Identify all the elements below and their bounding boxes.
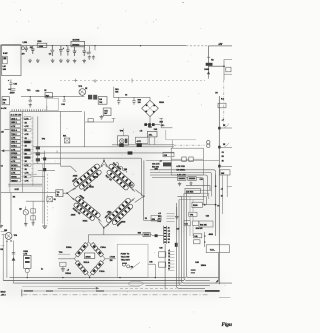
svg-text:C3: C3 [49, 54, 51, 56]
svg-text:R14A: R14A [89, 185, 94, 188]
connector J2 pin box row 2 [11, 120, 21, 123]
svg-text:C3: C3 [168, 256, 170, 258]
svg-text:4 4.7K: 4 4.7K [1, 107, 7, 110]
connector row below T1 [144, 124, 160, 126]
wire y127.8 stub [161, 127, 172, 129]
bridge B1 diamond outline [74, 242, 105, 277]
wire y291 dark patches left [24, 290, 33, 291]
connector J2 pin box row 16 [11, 175, 21, 178]
node blob y128 [218, 127, 220, 130]
component K1 inside enclosure [3, 56, 8, 64]
wire Q4 leads down [2, 235, 4, 281]
svg-text:TP8: TP8 [14, 235, 17, 237]
terminal TS1 pin 5 [164, 239, 166, 240]
component X1 crossed box [64, 138, 69, 143]
wire dashed y80 long [60, 80, 205, 82]
marks small x192 [191, 269, 196, 270]
wire bus y286.6 faint long [22, 286, 140, 288]
wire extra verticals right of bus [190, 197, 193, 237]
node blob junction y153 [128, 151, 133, 154]
wire bus y288.3 mid dashes [120, 287, 177, 289]
wire Q5 to bus [26, 273, 28, 278]
box R29 on x143 wire [151, 216, 161, 222]
connector J2 pin box row 5 [11, 132, 21, 135]
wire diamond bottom vertex [99, 221, 109, 234]
wire x215.6 vertical [215, 175, 217, 237]
connector J2 pin box row 10 [11, 152, 21, 155]
resistor network RN1 row 7 [24, 140, 31, 143]
connector J2 pin box row 4 [11, 128, 21, 131]
arrow input left [3, 150, 10, 152]
box T.O. driver left of diamond [56, 190, 63, 197]
svg-text:R71: R71 [63, 136, 66, 138]
wire x165.8 short vertical [165, 130, 167, 140]
wire stub left border to Q4 [1, 231, 7, 233]
ground C6 [74, 59, 76, 61]
wire diamond right vertex [135, 190, 144, 203]
svg-text:RTS11: RTS11 [11, 157, 17, 159]
wire x37.8 vertical [37, 116, 39, 163]
wire diamond top vertex [101, 158, 107, 165]
svg-text:2N2222: 2N2222 [72, 45, 80, 47]
wire y185.2 [186, 185, 210, 190]
box C19 dark [163, 162, 172, 166]
wire x227.2 vertical [226, 175, 228, 198]
ground C4 [60, 59, 62, 61]
svg-text:R9: R9 [168, 239, 170, 241]
ground C7 [83, 59, 85, 61]
svg-text:R5: R5 [13, 196, 15, 198]
transistor Q3 circle [23, 210, 28, 215]
ground C3 [52, 59, 54, 61]
resistor R41 box on rail [45, 93, 52, 98]
svg-text:4.7K: 4.7K [11, 125, 16, 128]
diode CR3 [90, 243, 98, 251]
svg-text:TP9: TP9 [120, 131, 123, 133]
svg-text:C20: C20 [200, 179, 203, 181]
wire y176.6 stub [33, 176, 45, 178]
arrow into bus [215, 280, 218, 283]
bridge T1 diamond [142, 100, 159, 116]
wire stub y128 [219, 127, 232, 129]
diode blobs in T1 [146, 104, 148, 106]
node blob y147 [218, 146, 220, 149]
hook curve y128 [224, 124, 229, 129]
svg-text:C31A: C31A [99, 270, 105, 273]
svg-text:R15A: R15A [159, 101, 164, 104]
svg-text:4.7K C2B: 4.7K C2B [176, 165, 185, 168]
svg-text:4.7K: 4.7K [25, 133, 30, 136]
capacitor C31 cluster [9, 79, 13, 88]
wire x44.7 vertical [44, 151, 46, 225]
svg-text:+2: +2 [222, 119, 224, 121]
wire right vertex link [105, 258, 116, 260]
wire stub y166.3 [219, 165, 232, 167]
wire T1 top stem [149, 97, 151, 100]
connector J2 pin box row 3 [11, 124, 21, 127]
lamp DS1 box with circle [117, 136, 128, 145]
svg-text:Q3: Q3 [19, 208, 21, 210]
wire y163.8 to right [33, 163, 61, 165]
svg-text:F2: F2 [217, 206, 219, 208]
wire bus y283.1 [14, 282, 182, 284]
wire TP9 stem [123, 128, 125, 135]
wire x143.5 down from right vertex [143, 196, 145, 220]
svg-text:100 1N914: 100 1N914 [176, 169, 185, 172]
svg-text:GND17: GND17 [11, 180, 17, 182]
ground C1b [37, 59, 39, 61]
wire bus y291 dark right end [205, 290, 220, 292]
wire block bottom edges [8, 184, 42, 186]
resistor R37 box [159, 252, 166, 257]
box TEL right [206, 245, 229, 253]
svg-text:R35: R35 [138, 233, 141, 235]
wire diamond left vertex [63, 188, 74, 199]
box shield around R42 [47, 98, 58, 110]
terminal text rows upper [167, 213, 175, 215]
diode CR4 [96, 249, 104, 257]
wire y97.3 rail right [114, 96, 150, 98]
capacitor C32 marks [10, 89, 15, 91]
svg-text:4N35: 4N35 [71, 213, 76, 216]
svg-text:4.7K: 4.7K [137, 140, 142, 143]
node dot y204 [204, 204, 206, 206]
wire x60.5 vertical [60, 111, 62, 166]
svg-text:Figur: Figur [222, 322, 233, 328]
resistor R23 box [185, 188, 200, 193]
svg-text:S1: S1 [54, 199, 56, 201]
svg-text:P7: P7 [168, 269, 170, 271]
svg-text:R23B: R23B [193, 205, 198, 207]
svg-text:R15A: R15A [83, 220, 88, 223]
terminal label row 1 [168, 251, 174, 253]
wire y144.8 rail [112, 144, 174, 146]
dark rows right column [24, 141, 30, 143]
svg-text:4.7K: 4.7K [11, 148, 16, 151]
wire left vertex link [58, 258, 74, 260]
svg-text:4N33: 4N33 [209, 233, 213, 236]
wire stub node C [94, 46, 96, 51]
ground R22 [190, 182, 192, 184]
wire stub node B [88, 46, 90, 53]
wire T1 bottom stem [149, 117, 151, 125]
svg-text:TP3: TP3 [42, 138, 45, 140]
wire main top rail [1, 45, 186, 47]
wire bus y291 [22, 290, 220, 292]
capacitor C61 [117, 97, 121, 104]
connector J2 pin box row 8 [11, 144, 21, 147]
wire K2 stem [171, 140, 173, 148]
svg-text:32: 32 [145, 218, 147, 220]
svg-text:4.7K: 4.7K [11, 160, 16, 163]
wire bus line 3 vertical-corner [182, 196, 233, 283]
wire y264.2 link [148, 263, 155, 265]
diode CR1 [80, 243, 88, 251]
capacitor C4 polarized [59, 46, 63, 56]
terminal TS1 pin 1 [164, 227, 166, 228]
box R24 right [199, 221, 213, 227]
capacitor C70 box [218, 103, 226, 108]
marks in modem box [122, 263, 127, 264]
svg-text:TXD 5: TXD 5 [11, 134, 16, 136]
node dots x204.7 [204, 235, 206, 237]
svg-text:MOD: MOD [1, 292, 6, 294]
wire y111 pin rail [10, 110, 82, 112]
svg-text:R30: R30 [3, 100, 6, 102]
resistor R43 small box on y122 [88, 119, 93, 122]
zener D1 with ground [28, 97, 32, 102]
svg-text:C16 4.7K: C16 4.7K [152, 162, 160, 165]
svg-text:AUX 1: AUX 1 [11, 117, 17, 120]
terminal label row 6 [168, 266, 174, 268]
svg-text:4N35: 4N35 [73, 174, 78, 177]
svg-text:R30A: R30A [66, 246, 72, 249]
box 4N25 center [84, 253, 94, 258]
component X2 crossed box [47, 197, 53, 202]
svg-text:C18: C18 [164, 155, 167, 157]
wire y146.8 long rail [33, 146, 174, 148]
wire staircase right 2 [187, 190, 212, 196]
svg-text:4.7K: 4.7K [25, 179, 30, 182]
wire y201 link [26, 200, 45, 202]
wire right main bus x219 [218, 96, 220, 284]
bracket x21.8 [21, 289, 23, 296]
svg-text:R44: R44 [148, 125, 151, 128]
svg-text:4N35: 4N35 [121, 220, 126, 223]
resistor R23B box [192, 202, 202, 207]
svg-text:R45: R45 [195, 261, 198, 264]
wire x155.3 down [154, 264, 156, 278]
ground C2 [29, 59, 31, 61]
wire y186.6 stub right [227, 186, 232, 188]
opto-coupler U3 top-left [67, 158, 110, 198]
wire x218.6 lower vertical [218, 253, 220, 281]
wire bus line 4 vertical-corner [179, 200, 210, 286]
node junctions y96 [47, 96, 48, 97]
component circle small [22, 47, 25, 50]
svg-text:+5: +5 [67, 270, 69, 272]
terminal label row 4 [168, 260, 174, 262]
svg-text:4.7K: 4.7K [11, 137, 16, 140]
diode CR8 [90, 267, 98, 275]
connector J2 pin box row 7 [11, 140, 21, 143]
svg-text:4.7K: 4.7K [25, 125, 30, 128]
diode CR5 [75, 261, 83, 269]
resistor R25 tall box [24, 255, 31, 268]
svg-text:C2: C2 [1, 166, 3, 168]
svg-text:R8: R8 [222, 156, 224, 158]
capacitor C6 [73, 47, 77, 56]
svg-text:C36: C36 [149, 262, 152, 264]
wire Q4 collector [10, 193, 12, 234]
capacitor C62 [132, 97, 136, 105]
svg-text:R29: R29 [152, 219, 155, 221]
connector J2 pin box row 13 [11, 163, 21, 166]
wire bus y280.4 [3, 279, 184, 281]
wire y139.8 gray link [166, 139, 196, 141]
resistor R22 box [188, 177, 196, 181]
component squares in K2 [182, 157, 186, 161]
connector J2 pin box row 17 [11, 179, 21, 182]
svg-text:5 MF: 5 MF [3, 53, 8, 55]
node dots Q4 leads [10, 240, 11, 241]
wire y174.2 stub left [28, 173, 37, 175]
terminal TS1 pin 6 [164, 242, 166, 243]
resistor R40 box [194, 240, 200, 244]
svg-text:+5: +5 [221, 188, 223, 190]
component blobs on x37.8 [36, 146, 40, 149]
svg-text:TALK SW: TALK SW [121, 255, 130, 258]
box C18 upper [163, 152, 174, 157]
svg-text:R24 10K: R24 10K [196, 227, 203, 230]
svg-text:+5V 2: +5V 2 [1, 295, 6, 297]
connector J2 pin box row 14 [11, 167, 21, 170]
svg-text:TP5: TP5 [190, 215, 193, 217]
node blob y235.7 [155, 234, 158, 237]
wire y204.7 link [202, 204, 215, 206]
terminal TS1 pin 2 [164, 230, 166, 231]
capacitor C24 box [184, 221, 190, 226]
hook curve y147 [224, 143, 229, 148]
svg-text:R32A: R32A [65, 272, 71, 275]
regulator U11 box 2N2222 [71, 41, 85, 46]
svg-text:PUSH TO: PUSH TO [121, 253, 130, 255]
resistor R35 box on rail [143, 233, 150, 237]
wire y220.4 stub [144, 219, 158, 223]
ground Q3 [25, 222, 27, 224]
svg-text:R2: R2 [211, 59, 213, 61]
svg-text:DTR10: DTR10 [11, 153, 17, 155]
transformer double vertical [141, 158, 144, 196]
wire bus y288.3 left dashed segment [58, 287, 96, 289]
connector J2 pin box row 15 [11, 171, 21, 174]
capacitor C3 group [50, 46, 54, 56]
svg-text:4N25: 4N25 [85, 255, 91, 258]
svg-text:SIG16: SIG16 [11, 177, 16, 179]
wire vertical right feed [208, 46, 210, 75]
wire staircase right 3 [184, 193, 209, 199]
wire block right vertical [32, 116, 34, 186]
wire bus line 5 vertical-corner [177, 203, 206, 288]
capacitor C52 box below [103, 108, 111, 116]
marks cluster mid-left [10, 92, 15, 94]
wire x84.7 vertical [84, 111, 86, 146]
node dots bus y277.6 [62, 277, 63, 278]
resistor R44 box 24L [147, 131, 157, 137]
svg-text:100K: 100K [204, 69, 209, 71]
svg-text:741: 741 [99, 101, 102, 104]
svg-text:R5: R5 [168, 262, 170, 264]
wire y170.7 to right [38, 170, 55, 172]
svg-text:C38: C38 [159, 248, 162, 250]
wire corner to diamond [61, 166, 77, 172]
svg-text:LM: LM [3, 66, 6, 68]
resistor network RN1 row 10 [24, 152, 31, 155]
wire bridge top stem [87, 235, 89, 242]
wire bus y294.8 dashdot [23, 294, 209, 296]
ground left border bottom [0, 224, 2, 226]
wire y122 link [85, 118, 116, 122]
capacitor C7 [82, 47, 86, 56]
resistor boxes right of Q3 [31, 209, 36, 213]
wire bus y285.7 partial [146, 285, 180, 287]
svg-text:4.7K 4.7K: 4.7K 4.7K [177, 174, 186, 177]
opto-coupler U5 bottom-left [65, 191, 106, 229]
svg-text:8.2K: 8.2K [15, 189, 20, 191]
box modem enclosure [117, 244, 148, 277]
capacitor C7b bars [86, 52, 90, 54]
resistor R44 stubs [150, 137, 155, 145]
capacitor C8 box right [226, 67, 231, 72]
svg-text:220: 220 [110, 260, 113, 262]
node J1 top rail junctions [94, 45, 95, 46]
speck dots scan noise [20, 9, 21, 10]
ground x33 [32, 221, 34, 223]
wire y192.6 rail [1, 192, 56, 194]
wire stub y74 [224, 73, 232, 75]
tick x3 [2, 234, 5, 236]
terminal label row 3 [168, 257, 174, 259]
node blob y166 [218, 165, 220, 168]
svg-text:C6: C6 [168, 266, 170, 268]
svg-text:1 R33: 1 R33 [110, 257, 116, 259]
capacitor C40 box [194, 234, 202, 238]
plus ticks on dashed line [74, 79, 77, 83]
diode CR6 [80, 267, 88, 275]
wire vertical x224 [223, 59, 225, 80]
resistor network RN1 row 13 [24, 163, 31, 166]
wire dashed x47.6 [47, 174, 49, 196]
svg-text:470: 470 [22, 52, 25, 55]
wire x204.7 vertical [204, 232, 206, 247]
relay box K2 outline [171, 148, 203, 175]
wire y160.5 right link [146, 160, 219, 162]
wire rail to connector [150, 234, 163, 237]
wire bridge bottom stem [89, 277, 91, 278]
svg-text:C44: C44 [61, 103, 64, 106]
svg-text:T.E.L.: T.E.L. [210, 250, 216, 252]
transistor Q5 circle below R25 [25, 269, 29, 273]
capacitor C25 box [193, 221, 199, 225]
svg-text:C24: C24 [185, 223, 188, 226]
capacitor C2 [31, 46, 35, 54]
capacitor C5 [66, 46, 69, 56]
ground small diamond left [62, 266, 64, 268]
svg-text:4x: 4x [41, 268, 43, 271]
wire bus line 1 vertical-corner [187, 190, 219, 277]
wire y152.9 long rail [33, 152, 174, 154]
resistor R21 box [178, 177, 186, 181]
wire x165 vertical to bus [164, 244, 166, 290]
resistor R51 R52 small boxes [88, 95, 92, 100]
resistor network RN1 row 4 [24, 128, 31, 131]
svg-text:C8: C8 [168, 236, 170, 238]
connector J2 pin box row 6 [11, 136, 21, 139]
capacitor C39 box [159, 262, 166, 267]
wire x161 vertical top [160, 118, 162, 127]
wire short y297.6 right [219, 297, 230, 299]
ground C7b [92, 55, 94, 57]
svg-text:R15: R15 [160, 122, 163, 124]
wire stub x46.8 up [46, 106, 48, 112]
resistor network RN1 row 16 [24, 175, 31, 178]
diode D5 marks on x13.5 [12, 252, 15, 254]
svg-text:4.7K: 4.7K [25, 164, 30, 167]
arrow down-right feed [207, 71, 210, 74]
node blob x176.3 [175, 243, 178, 247]
wire y234.8 rail [88, 234, 143, 236]
svg-text:R25A: R25A [23, 250, 28, 253]
